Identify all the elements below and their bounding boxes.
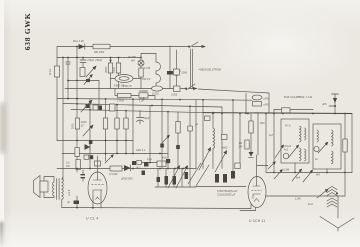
diode mid-left <box>85 144 91 150</box>
svg-text:~WECHSELSTROM: ~WECHSELSTROM <box>198 69 221 72</box>
speaker loop wires <box>44 177 54 198</box>
svg-text:RGL 0,05: RGL 0,05 <box>73 40 84 43</box>
dark cap mid <box>166 159 170 163</box>
svg-text:0,725: 0,725 <box>144 67 151 70</box>
svg-text:4µ4: 4µ4 <box>296 177 301 180</box>
rail x133 <box>132 99 134 154</box>
junction dots bus yF <box>89 109 214 114</box>
wire y162.5 cluster <box>141 162 157 164</box>
svg-text:AM: AM <box>316 174 320 177</box>
mains cable double line <box>191 49 193 88</box>
box right of pair <box>110 104 116 111</box>
svg-text:4x05: 4x05 <box>222 147 228 150</box>
rail x63 <box>62 58 64 181</box>
svg-text:WE 1502: WE 1502 <box>94 51 105 54</box>
vertical x162 <box>160 99 164 169</box>
tube U CCH <box>248 155 266 208</box>
trimmer arrows right <box>275 145 284 159</box>
tube2 stub wires <box>240 207 256 211</box>
switch on H3 <box>185 84 198 90</box>
box at 222 <box>222 135 228 140</box>
vertical x196 <box>195 100 197 169</box>
arrow mid x166 <box>162 135 170 143</box>
var cap with arrow left mid <box>81 100 93 113</box>
wire y172 right <box>266 172 352 174</box>
svg-text:50µF: 50µF <box>144 117 150 120</box>
vertical x222 <box>221 107 223 169</box>
vertical x274 <box>273 110 275 173</box>
stacked components right of yD end <box>252 95 270 100</box>
small tube circle 2 <box>314 146 319 151</box>
transformer core <box>57 179 59 200</box>
diode RGL 0,05 <box>73 40 85 49</box>
heater choke bumps <box>141 54 161 89</box>
vertical x150 <box>149 106 151 163</box>
speaker coil box <box>40 181 48 192</box>
rail x68 with capacitor <box>66 57 70 99</box>
gang extra cap <box>142 171 146 176</box>
wire y168 <box>57 168 196 170</box>
rail x90 <box>89 99 91 169</box>
dark cap on x90 <box>89 140 93 144</box>
vertical x246 <box>245 93 247 114</box>
electrolytic +50uF +50uF <box>80 57 103 67</box>
oval fuse NSW <box>111 75 142 88</box>
coil box 2 <box>313 124 341 169</box>
svg-text:Fern: Fern <box>308 203 314 206</box>
wire H3 <box>65 88 186 90</box>
svg-text:a.m.6: a.m.6 <box>68 189 71 196</box>
speaker cone <box>34 176 41 198</box>
svg-text:AM: AM <box>131 60 135 63</box>
wire y80.5 <box>67 80 99 82</box>
wire H2 second rail <box>57 57 141 59</box>
secondary to rail <box>62 177 63 208</box>
svg-text:C500: C500 <box>113 66 116 73</box>
switch on H1 <box>188 42 206 48</box>
mid labels <box>217 190 238 197</box>
rail x126 <box>125 110 127 154</box>
diode on y168 <box>124 165 131 171</box>
svg-text:JA 2: JA 2 <box>136 167 141 170</box>
svg-text:U CCH 11: U CCH 11 <box>249 219 265 223</box>
resistor box pair on x110 x118 <box>105 57 113 89</box>
vertical x266 <box>260 114 267 173</box>
box and dark box above tube1 <box>84 155 93 159</box>
svg-text:0,005: 0,005 <box>171 94 178 97</box>
svg-text:µF8: µF8 <box>322 103 327 106</box>
cap above tube1 <box>81 170 86 181</box>
vertical x240 <box>239 114 241 169</box>
svg-text:2000: 2000 <box>72 123 75 129</box>
bottom rail <box>62 208 251 209</box>
junction dots bus yG <box>212 113 346 115</box>
svg-text:C/1,5W: C/1,5W <box>109 173 118 176</box>
rail x77 <box>76 47 78 173</box>
box on x203 <box>205 116 211 121</box>
resistor 1W on x247 <box>239 140 250 149</box>
svg-text:10W: 10W <box>260 122 266 125</box>
svg-text:4µ7: 4µ7 <box>269 134 274 137</box>
box on y106 <box>282 108 291 113</box>
bus yD <box>57 99 252 101</box>
svg-text:638 GWK: 638 GWK <box>23 13 32 51</box>
vertical x178 resistor <box>176 112 180 169</box>
box pair mid <box>93 105 102 110</box>
svg-text:µF01: µF01 <box>264 98 270 101</box>
dark cap at 133 <box>132 161 136 165</box>
svg-text:4x2: 4x2 <box>284 149 289 152</box>
box on tube1 lead <box>95 161 101 166</box>
svg-text:µF/50 DIN: µF/50 DIN <box>121 178 133 181</box>
box JA2 <box>136 160 142 169</box>
label 2000 1F <box>81 121 87 128</box>
svg-text:KW 0,5: KW 0,5 <box>142 78 151 81</box>
svg-text:4/50: 4/50 <box>162 157 167 160</box>
resistor on x105 <box>103 118 107 129</box>
vertical drop to bus <box>268 93 270 114</box>
mid dark caps row <box>215 171 235 183</box>
svg-text:C/2x2Ω/5000 µF: C/2x2Ω/5000 µF <box>217 194 236 197</box>
variable arrow mid <box>83 125 94 137</box>
rail x105 <box>105 99 107 161</box>
bus yG bold <box>203 112 352 115</box>
box outline mid <box>157 161 166 167</box>
resistor on x117 <box>115 118 119 129</box>
svg-text:1µB: 1µB <box>140 97 145 100</box>
output transformer secondary <box>62 179 64 199</box>
bus yE <box>63 104 222 108</box>
svg-text:1F: 1F <box>81 125 84 128</box>
oval 502 on H3 <box>152 86 163 96</box>
svg-text:1 50Ω: 1 50Ω <box>117 100 124 103</box>
gang bottom wire <box>155 186 196 188</box>
wire H1 top rail <box>57 46 189 48</box>
svg-text:GRL 0,1: GRL 0,1 <box>136 149 146 152</box>
coil on x213 <box>213 113 215 169</box>
vertical x352 <box>351 114 353 173</box>
resistor on x126 <box>124 118 128 129</box>
wire yH <box>57 140 133 142</box>
dots yH <box>76 140 127 142</box>
svg-text:P44 CCH/BB11 = 1Ω: P44 CCH/BB11 = 1Ω <box>284 95 313 99</box>
svg-text:W500: W500 <box>105 66 108 73</box>
vertical x168 <box>167 112 169 169</box>
resistor small left mid <box>80 68 85 77</box>
chevron stack 2 <box>308 198 337 207</box>
mid bottom wire <box>196 186 246 188</box>
long gang diagonals <box>188 163 209 186</box>
resistor C/1,5W <box>109 166 122 176</box>
vertical x345 <box>343 114 347 197</box>
rail x117 <box>116 104 118 154</box>
svg-text:µ2: µ2 <box>195 123 198 126</box>
dark cap at 144 <box>144 162 149 167</box>
resistor 0,1 on x57 <box>49 66 60 77</box>
vertical x338 down <box>337 196 339 218</box>
output transformer primary <box>52 182 54 196</box>
svg-text:+50µF +50µF: +50µF +50µF <box>87 59 103 62</box>
svg-text:5000: 5000 <box>182 72 188 75</box>
cap 5000 box <box>174 50 188 89</box>
svg-text:2W: 2W <box>239 146 243 149</box>
gang verticals <box>158 106 190 187</box>
svg-text:1500 W: 1500 W <box>123 85 132 88</box>
vertical x203 <box>202 100 204 169</box>
var cap on y80.5 <box>84 74 93 85</box>
box1 tail <box>294 163 296 173</box>
gang dark caps <box>157 172 189 185</box>
dots y172 <box>273 172 346 174</box>
wire right mid segment <box>198 89 269 93</box>
svg-text:0,5M: 0,5M <box>284 169 290 172</box>
cap dark on x170 <box>167 46 182 89</box>
resistor on x77 <box>72 118 80 129</box>
svg-text:µF: µF <box>67 201 70 204</box>
svg-text:1,5M: 1,5M <box>295 198 301 201</box>
wire y106 segment <box>274 109 313 111</box>
branch H3 to yD with resistors <box>115 89 155 103</box>
dots y153 <box>76 153 161 155</box>
box on x240 <box>235 163 240 169</box>
resistor on x77 above tube <box>75 148 79 157</box>
svg-text:µF02: µF02 <box>264 104 270 107</box>
vertical x233 <box>232 100 234 171</box>
trimmers below y172 <box>292 169 313 183</box>
svg-text:Ω 502: Ω 502 <box>152 93 159 96</box>
vertical x99 <box>98 81 100 106</box>
mid trimmer arrows <box>199 147 227 172</box>
wire y196 <box>266 195 345 197</box>
cap on x190 <box>188 126 193 131</box>
small tube circle 1 <box>283 153 289 159</box>
earth V symbol <box>320 217 354 232</box>
coil box 1 <box>281 119 309 163</box>
resistor x77 lower with labels <box>66 160 81 170</box>
antenna <box>322 94 339 114</box>
resistor on x251 <box>249 114 253 156</box>
diode on x240 <box>249 152 254 157</box>
bus yF <box>71 110 203 113</box>
svg-text:U CL 4: U CL 4 <box>86 217 99 221</box>
resistor WE 1502 <box>93 44 110 54</box>
tube U CL4 <box>88 156 107 209</box>
wire y153 <box>62 153 168 155</box>
left rail x57 <box>56 47 58 67</box>
svg-text:1W: 1W <box>66 165 70 168</box>
arrow component on y196 <box>317 189 329 198</box>
box 0,005 on H3 <box>171 86 180 97</box>
variable arrow <box>86 66 97 78</box>
dots y168 <box>76 168 184 170</box>
chevron stack 1 <box>327 187 338 196</box>
scattered value labels right section <box>195 123 320 180</box>
vertical x258 <box>257 114 259 156</box>
box2 tail <box>326 169 328 173</box>
junction dots bus yE <box>76 103 191 107</box>
gang diag arrows <box>168 165 188 188</box>
svg-text:W 0,1: W 0,1 <box>49 68 52 75</box>
svg-text:0,1µ: 0,1µ <box>147 158 152 161</box>
diagonal arrow above tube1 <box>105 154 114 163</box>
lamp W255 <box>128 56 144 66</box>
cap on bottom rail <box>67 196 79 209</box>
resistor under lamp <box>139 66 143 89</box>
electrolytic 50uF mid <box>137 111 150 125</box>
junction dots bus yD <box>67 98 234 101</box>
svg-text:4/7,5: 4/7,5 <box>285 125 291 128</box>
